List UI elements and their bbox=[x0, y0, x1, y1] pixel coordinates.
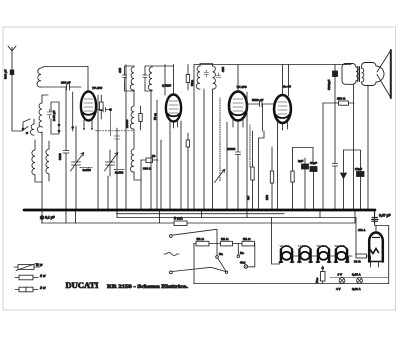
svg-text:4 V: 4 V bbox=[336, 287, 341, 291]
wire column x204 bbox=[203, 89, 205, 209]
dash-dot link bbox=[249, 125, 251, 168]
capacitor x360 bbox=[355, 167, 364, 209]
svg-text:0,06 A: 0,06 A bbox=[352, 287, 362, 291]
coil L1 antenna primary bbox=[37, 67, 88, 88]
svg-text:50µF: 50µF bbox=[310, 161, 317, 165]
tube V2 converter bbox=[152, 65, 181, 210]
antenna bbox=[8, 46, 22, 131]
LC frame left of V1 bbox=[51, 102, 60, 134]
coil L5 bbox=[46, 141, 49, 181]
pilot lamp wires bbox=[330, 277, 389, 279]
sub-bus line A bbox=[42, 222, 175, 224]
heater winding W1 VF 803 bbox=[279, 244, 293, 262]
svg-text:Se #6: Se #6 bbox=[283, 85, 291, 89]
right column x387 bbox=[388, 226, 390, 284]
resistor column x272 bbox=[265, 147, 274, 209]
wire column x181 bbox=[180, 121, 182, 209]
svg-text:0,07 µF: 0,07 µF bbox=[379, 214, 391, 218]
speaker bbox=[377, 50, 391, 98]
svg-text:150 Ω: 150 Ω bbox=[337, 97, 346, 101]
wire column x161 bbox=[160, 140, 162, 209]
heater winding W4 SB 807 bbox=[334, 244, 348, 262]
capacitor x335 lower bbox=[333, 164, 338, 210]
svg-text:VB 805: VB 805 bbox=[317, 244, 327, 248]
svg-text:5000pF: 5000pF bbox=[327, 79, 331, 90]
resistor 5mOhm bbox=[174, 211, 355, 226]
electrolytic triangle bbox=[341, 150, 347, 209]
svg-text:Q 5M6: Q 5M6 bbox=[162, 84, 171, 88]
heater winding W3 VB 805 bbox=[316, 244, 330, 262]
sub-bus line B bbox=[117, 217, 356, 219]
wire column x212 bbox=[212, 89, 214, 209]
selector lever bbox=[218, 258, 228, 273]
svg-text:3 w: 3 w bbox=[40, 286, 46, 290]
svg-text:FI 804: FI 804 bbox=[298, 244, 307, 248]
svg-text:RR 2150 - Schema Elettrico.: RR 2150 - Schema Elettrico. bbox=[107, 284, 189, 290]
resistor column x292.5 bbox=[291, 148, 294, 210]
wire column x194 top rail to bus bbox=[193, 65, 195, 210]
mains switch S2 bbox=[169, 267, 226, 273]
svg-text:10000: 10000 bbox=[227, 147, 236, 151]
selector contact Na bbox=[216, 229, 223, 258]
legend resistor 3 watt bbox=[15, 286, 46, 292]
coil L7 bbox=[130, 149, 141, 180]
svg-text:35a L: 35a L bbox=[358, 228, 366, 232]
coil L4 osc bbox=[32, 140, 42, 182]
wire column x108 bbox=[107, 176, 109, 209]
tone capacitor 5000pF bbox=[327, 65, 338, 164]
svg-text:200 pF: 200 pF bbox=[61, 81, 71, 85]
padder capacitor bbox=[58, 87, 69, 209]
coil L3 bbox=[30, 119, 34, 135]
svg-text:30 Ω: 30 Ω bbox=[354, 260, 361, 264]
capacitor 0,07uF above rectifier bbox=[372, 211, 391, 226]
capacitor 0,1uF at bus start bbox=[40, 211, 55, 223]
wire column x258.5 bbox=[258, 138, 260, 209]
wire column x72.7 bbox=[72, 92, 74, 131]
bottom rail bbox=[194, 283, 389, 285]
wire column x141 bbox=[140, 160, 142, 209]
svg-text:Na: Na bbox=[219, 252, 223, 256]
wire column x157 bbox=[156, 100, 158, 209]
IF transformer T1 bbox=[118, 65, 165, 210]
svg-text:M1 Ω: M1 Ω bbox=[197, 237, 205, 241]
sub-line C bbox=[117, 213, 285, 215]
capacitor 200pF bbox=[61, 81, 81, 91]
volume pot column x117 bbox=[114, 128, 120, 218]
svg-text:8µF: 8µF bbox=[298, 159, 303, 163]
sub-bus stubs bbox=[66, 211, 247, 223]
resistor right of V2 bbox=[186, 65, 194, 91]
svg-text:300 Ω: 300 Ω bbox=[143, 167, 152, 171]
svg-text:TF AF6: TF AF6 bbox=[92, 86, 102, 90]
resistor ballast box1 bbox=[194, 237, 221, 246]
heater interconnect bbox=[294, 256, 352, 262]
output transformer OT1 secondary bbox=[362, 63, 385, 86]
selector contact No bbox=[237, 244, 244, 258]
svg-text:6 V: 6 V bbox=[338, 273, 343, 277]
bus stub x320 bbox=[319, 211, 321, 218]
svg-text:2-50 pF: 2-50 pF bbox=[52, 110, 56, 121]
mains switch S1 bbox=[169, 229, 216, 237]
output transformer OT1 primary bbox=[342, 64, 358, 85]
resistor R-osc bbox=[139, 106, 142, 130]
svg-text:10: 10 bbox=[152, 154, 156, 158]
main ground bus bbox=[24, 209, 375, 212]
IF transformer T2 bbox=[196, 64, 225, 90]
transformer core bbox=[358, 67, 360, 82]
svg-text:500 pF: 500 pF bbox=[4, 69, 8, 79]
svg-text:VF 803: VF 803 bbox=[280, 244, 290, 248]
wire column x262.5 bbox=[262, 104, 264, 131]
svg-text:Fus: Fus bbox=[315, 277, 319, 283]
wire down to bus x42 bbox=[41, 132, 43, 209]
selector resistor box3 bbox=[242, 237, 255, 246]
svg-text:0,5: 0,5 bbox=[246, 195, 250, 200]
tube V3 IF amp bbox=[229, 65, 247, 129]
band switch contacts bbox=[22, 119, 30, 134]
svg-text:0,05 A: 0,05 A bbox=[352, 273, 362, 277]
heater feed wire right bbox=[355, 218, 357, 257]
resistor right of V1 bbox=[96, 95, 134, 136]
tube V4 output bbox=[274, 65, 291, 210]
wire link y147 bbox=[293, 148, 314, 164]
power box left edge bbox=[193, 244, 195, 284]
coil L2 tuned bbox=[37, 95, 56, 133]
coil L6 osc section bbox=[130, 91, 134, 149]
svg-text:SB 807: SB 807 bbox=[335, 244, 345, 248]
capacitor 10000pF column x238 bbox=[227, 128, 241, 209]
resistor column x252.5 bbox=[246, 131, 254, 209]
capacitor C-ant 500pF bbox=[4, 69, 14, 79]
wire column x288 bbox=[288, 65, 290, 97]
pilot lamp P1 bbox=[336, 273, 345, 292]
heater feed wire left bbox=[272, 218, 280, 265]
connector symbol bbox=[315, 266, 325, 284]
svg-text:3000: 3000 bbox=[58, 153, 62, 160]
top B+ rail bbox=[194, 64, 351, 66]
inner rect wire bbox=[344, 150, 361, 171]
wire junction column x98 bbox=[97, 95, 99, 209]
svg-text:DUCATI: DUCATI bbox=[66, 281, 99, 290]
svg-text:No: No bbox=[240, 251, 244, 255]
svg-text:2x480: 2x480 bbox=[83, 168, 92, 172]
svg-text:5000 pF: 5000 pF bbox=[252, 98, 263, 102]
svg-text:M1 Ω: M1 Ω bbox=[221, 237, 229, 241]
svg-text:30m: 30m bbox=[190, 80, 194, 86]
heater winding W2 FI 804 bbox=[298, 244, 312, 262]
tube V1 bbox=[81, 86, 102, 131]
legend resistor 1 watt bbox=[15, 274, 46, 280]
wire column x227 bbox=[226, 122, 228, 209]
svg-text:1 w: 1 w bbox=[40, 274, 46, 278]
svg-text:20000: 20000 bbox=[125, 119, 129, 128]
svg-text:0,1 µF: 0,1 µF bbox=[45, 216, 55, 220]
svg-text:50 m: 50 m bbox=[153, 113, 157, 120]
legend resistor half watt bbox=[14, 263, 43, 271]
tuning gang C-var2 bbox=[105, 150, 125, 176]
wire tube1 top bbox=[87, 67, 89, 92]
coupling capacitor 5000pF bbox=[247, 98, 274, 107]
pilot lamp P2 bbox=[352, 273, 362, 292]
svg-text:465: 465 bbox=[221, 67, 225, 72]
wire column x323 bbox=[322, 103, 324, 209]
wire column x247 bbox=[246, 92, 248, 209]
wire column x151 bbox=[150, 90, 152, 209]
small cap C1v circle bbox=[240, 244, 255, 269]
wire secondary lead down bbox=[367, 86, 369, 210]
svg-text:150: 150 bbox=[265, 195, 269, 200]
svg-text:M1 Ω: M1 Ω bbox=[243, 237, 251, 241]
rectifier tube V5 bbox=[358, 211, 384, 267]
resistor 150ohm horizontal bbox=[323, 97, 354, 106]
capacitor 50uF bbox=[310, 161, 317, 209]
svg-text:½ w: ½ w bbox=[36, 263, 43, 267]
selector resistor box2 bbox=[221, 237, 243, 246]
capacitor 8uF bbox=[298, 158, 309, 209]
resistor R x188 low bbox=[186, 133, 189, 209]
label cluster osc bbox=[125, 113, 157, 171]
wire primary lead down bbox=[353, 84, 355, 209]
svg-text:25µF: 25µF bbox=[355, 167, 362, 171]
AC wave symbol bbox=[164, 253, 179, 256]
svg-text:465: 465 bbox=[118, 68, 122, 73]
resistor R 10k bbox=[141, 154, 158, 163]
AVC dashed line bbox=[215, 98, 225, 183]
corner bracket bbox=[259, 131, 265, 138]
tuning gang C-var1 bbox=[71, 126, 93, 209]
heater series resistor bbox=[354, 254, 371, 264]
svg-text:C1v: C1v bbox=[240, 261, 246, 265]
svg-text:TF AF6: TF AF6 bbox=[237, 85, 247, 89]
svg-text:2x480: 2x480 bbox=[115, 171, 124, 175]
